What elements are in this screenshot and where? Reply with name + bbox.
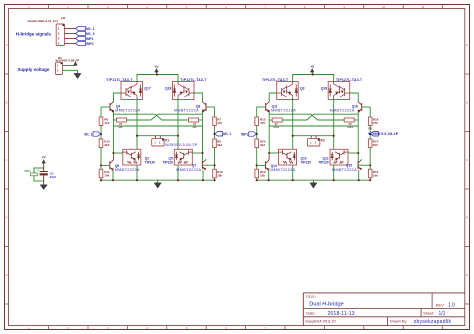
junction right TIP120 base: [201, 152, 203, 154]
svg-text:470: 470: [217, 121, 222, 125]
wire collector Q8: [194, 93, 203, 102]
connector P3 label: [56, 56, 80, 63]
net flag INP2 with connector label: [368, 127, 399, 137]
svg-text:Q18: Q18: [165, 87, 172, 91]
junction right output: [333, 135, 335, 137]
net flag M1_1: [84, 132, 102, 137]
net flag INP2 on H3 pin 4: [76, 41, 94, 46]
wire left rail lower: [256, 148, 258, 170]
junction left TIP120 base: [268, 152, 270, 154]
wire collector Q16: [350, 93, 359, 102]
wire right node column: [202, 112, 204, 162]
wire collector Q6: [112, 156, 114, 161]
transistor Q5 TIP120: [174, 149, 192, 165]
wire right node column: [357, 112, 359, 162]
wire right rail lower: [369, 148, 371, 170]
svg-text:MMBT2222A: MMBT2222A: [270, 168, 295, 172]
svg-text:3k3: 3k3: [217, 143, 222, 147]
wire cross upper to lower: [269, 114, 344, 120]
wire left rail upper: [100, 107, 102, 117]
label Q4: [115, 105, 140, 113]
voltage probe VDC: [24, 168, 44, 181]
svg-text:WJ500V-5.08-2P: WJ500V-5.08-2P: [165, 143, 197, 147]
svg-text:MMBT2222A: MMBT2222A: [271, 109, 296, 113]
label Q6: [115, 164, 140, 172]
transistor Q11 MMBT2222A: [266, 101, 270, 112]
wire left rail bottom: [256, 178, 258, 180]
wire left node column: [268, 112, 270, 156]
svg-text:Drawn By:: Drawn By:: [390, 320, 408, 324]
svg-text:B: B: [466, 101, 468, 105]
wire emitter Q12: [333, 165, 335, 180]
transistor Q4 MMBT2222A: [110, 101, 114, 112]
svg-text:MMBT2222A: MMBT2222A: [174, 109, 199, 113]
svg-text:2018-11-13: 2018-11-13: [328, 311, 355, 317]
svg-text:VDC: VDC: [24, 169, 31, 173]
svg-text:Header-Male-2.54_1x4: Header-Male-2.54_1x4: [28, 19, 59, 23]
svg-text:MMBT2222A: MMBT2222A: [115, 168, 140, 172]
wire emitter Q7: [202, 170, 204, 181]
connector P2 WJ500V-5.08-2P: [307, 136, 319, 146]
label Q7: [176, 164, 201, 172]
svg-text:E: E: [6, 273, 8, 277]
net flag M1_1 on H3 pin 1: [76, 26, 95, 31]
wire base Q14: [257, 164, 266, 166]
wire collector Q11: [269, 93, 277, 102]
svg-text:Q17: Q17: [144, 87, 151, 91]
wire left rail lower: [100, 148, 102, 170]
wire base drive line: [269, 125, 358, 127]
svg-text:P5: P5: [369, 127, 373, 131]
junction right base node: [369, 164, 371, 166]
wire base Q2: [114, 152, 123, 154]
label Q14: [270, 164, 295, 172]
wire cross lower to upper: [127, 114, 203, 120]
svg-text:P1: P1: [165, 138, 169, 142]
net flag INP1 on H3 pin 3: [76, 36, 94, 41]
transistor Q2 TIP120: [123, 149, 141, 165]
junction Q11 emitter: [268, 110, 270, 112]
transistor Q10 TIP120: [279, 149, 297, 165]
wire bottom rail: [257, 179, 371, 181]
wire right rail upper: [214, 107, 216, 117]
resistor R15 470: [255, 117, 266, 126]
wire output row: [293, 135, 334, 137]
svg-text:10: 10: [382, 5, 386, 9]
svg-text:P2: P2: [321, 138, 325, 142]
resistor R11 10k: [99, 169, 110, 178]
resistor R14 47: [344, 118, 358, 129]
svg-text:E: E: [466, 273, 468, 277]
net flag M1_2: [213, 132, 231, 137]
wire left rail upper: [256, 107, 258, 117]
junction right TIP120 base: [357, 152, 359, 154]
svg-text:3k3: 3k3: [104, 143, 109, 147]
svg-text:EasyEDA V5.8.20: EasyEDA V5.8.20: [306, 320, 336, 324]
wire base Q5: [192, 152, 202, 154]
wire emitter Q6: [112, 170, 114, 181]
junction left TIP120 base: [112, 152, 114, 154]
wire emitter Q14: [268, 170, 270, 181]
wire right rail lower: [214, 148, 216, 170]
label Q15: [332, 164, 357, 172]
wire emitter Q15: [358, 170, 360, 181]
junction at +V: [312, 73, 314, 75]
wire left output column: [136, 100, 138, 151]
svg-text:10k: 10k: [373, 173, 378, 177]
transistor Q18 TIP127L-TA3-T: [173, 82, 195, 100]
svg-text:11: 11: [421, 5, 424, 9]
resistor R6 470: [99, 117, 109, 126]
svg-text:Q19: Q19: [321, 87, 328, 91]
transistor Q15 MMBT2222A: [358, 159, 362, 170]
junction left output: [292, 135, 294, 137]
svg-text:M1_1: M1_1: [86, 27, 95, 31]
resistor R4 47: [114, 118, 127, 129]
resistor R18 470: [368, 117, 378, 126]
svg-text:TIP120: TIP120: [301, 160, 312, 164]
svg-text:MMBT2222A: MMBT2222A: [330, 109, 355, 113]
wire cross upper to lower: [114, 114, 189, 120]
label Q8: [174, 105, 201, 113]
resistor R7 470: [213, 117, 223, 126]
transistor Q16 MMBT2222A: [358, 101, 362, 112]
svg-text:MMBT2222A: MMBT2222A: [176, 168, 201, 172]
label P1: [165, 138, 198, 147]
wire base Q6: [101, 164, 110, 166]
wire emitter Q10: [292, 165, 294, 180]
svg-text:TITLE:: TITLE:: [306, 295, 316, 299]
wire base Q11: [257, 106, 266, 108]
wire right output column: [177, 100, 179, 151]
wire left node column: [113, 112, 115, 156]
svg-text:TIP120: TIP120: [163, 160, 174, 164]
svg-text:470: 470: [104, 121, 109, 125]
power flag +V of bridge 2: [310, 65, 315, 75]
wire base Q16: [362, 106, 371, 108]
transistor Q17 TIP127L-TA3-T: [121, 82, 143, 100]
svg-text:H3: H3: [61, 16, 65, 20]
junction Q4 emitter: [112, 110, 114, 112]
wire collector Q4: [114, 93, 122, 102]
wire right rail bottom: [214, 178, 216, 180]
wire collector Q14: [268, 156, 270, 161]
svg-text:D: D: [466, 216, 468, 220]
wire base Q8: [206, 106, 215, 108]
connector P3 WJ500V-5.08-2P: [56, 62, 63, 74]
svg-text:M1_2: M1_2: [86, 32, 95, 36]
transistor Q19 TIP127L-TA3-T: [328, 82, 350, 100]
wire right output column: [333, 100, 335, 151]
label Q11: [271, 105, 296, 113]
power flag +V at C1: [42, 156, 47, 167]
label Q12: [318, 157, 329, 165]
wire base Q15: [358, 164, 370, 166]
resistor R13 47: [269, 118, 282, 129]
resistor R16 10k: [368, 169, 378, 178]
capacitor C1 2m2: [37, 168, 56, 179]
wire right rail mid: [369, 126, 371, 140]
wire base Q12: [348, 152, 358, 154]
svg-text:H-bridge signals: H-bridge signals: [16, 31, 52, 36]
resistor R10 10k: [213, 169, 223, 178]
wire emitter Q2: [136, 165, 138, 180]
title block frame: [303, 293, 465, 326]
junction right output: [177, 135, 179, 137]
svg-text:10k: 10k: [217, 173, 222, 177]
svg-text:M1_1: M1_1: [84, 132, 92, 136]
svg-text:zbysekzapadlik: zbysekzapadlik: [414, 319, 452, 325]
transistor Q7 MMBT2222A: [202, 159, 206, 170]
svg-text:3k3: 3k3: [260, 143, 265, 147]
wire emitter Q5: [177, 165, 179, 180]
svg-text:470: 470: [373, 121, 378, 125]
wire right rail upper: [369, 107, 371, 117]
power flag +V at P3: [74, 62, 78, 66]
resistor R9 3k3: [213, 139, 223, 148]
junction left output: [136, 135, 138, 137]
transistor Q8 MMBT2222A: [202, 101, 206, 112]
svg-text:INP2: INP2: [86, 42, 94, 46]
junction right base node: [213, 164, 215, 166]
svg-text:+: +: [37, 168, 39, 172]
svg-text:A: A: [6, 43, 8, 47]
ground at P3: [74, 73, 81, 78]
svg-text:1.0: 1.0: [448, 303, 455, 309]
svg-text:Supply voltage: Supply voltage: [17, 67, 50, 72]
title block Sheet: [423, 311, 445, 317]
wire left rail mid: [256, 126, 258, 140]
wire bottom rail: [101, 179, 215, 181]
wire cross lower to upper: [282, 114, 358, 120]
junctions on bottom rail: [100, 179, 216, 181]
transistor Q3 TIP127L-TA3-T: [277, 82, 299, 100]
ground of bridge 1: [154, 180, 161, 188]
svg-text:A: A: [466, 43, 468, 47]
svg-text:INP1: INP1: [241, 132, 248, 136]
svg-text:M1_2: M1_2: [223, 132, 231, 136]
wire top rail: [137, 75, 178, 82]
svg-text:MMBT2222A: MMBT2222A: [115, 109, 140, 113]
svg-text:Q3: Q3: [300, 87, 305, 91]
svg-text:Sheet:: Sheet:: [423, 312, 434, 316]
connector H3 Header-Male-2.54_1x4: [56, 24, 75, 46]
label Q2: [145, 157, 156, 165]
svg-text:WJ500V-5.08-2P: WJ500V-5.08-2P: [368, 132, 399, 136]
svg-text:2m2: 2m2: [50, 175, 56, 179]
wire right rail bottom: [369, 178, 371, 180]
svg-text:D: D: [5, 216, 7, 220]
resistor R19 10k: [255, 169, 266, 178]
svg-text:Dual H-bridge: Dual H-bridge: [309, 302, 344, 308]
wire base Q7: [203, 164, 215, 166]
junction at +V: [156, 73, 158, 75]
title block Date: [306, 311, 354, 317]
label Q16: [330, 105, 358, 113]
wire left output column: [292, 100, 294, 151]
svg-text:MMBT2222A: MMBT2222A: [332, 168, 357, 172]
net flag INP1: [241, 132, 258, 137]
resistor R5 47: [189, 118, 203, 129]
wire left rail mid: [100, 126, 102, 140]
svg-text:1/1: 1/1: [439, 311, 446, 317]
wire output row: [137, 135, 178, 137]
svg-text:470: 470: [260, 121, 265, 125]
connector P1 WJ500V-5.08-2P: [152, 136, 164, 146]
label Q10: [301, 157, 312, 165]
wire P3 pin2 to ground: [63, 70, 78, 73]
wire base drive line: [114, 125, 203, 127]
net flag M1_2 on H3 pin 2: [76, 31, 95, 36]
transistor Q14 MMBT2222A: [266, 160, 270, 171]
svg-text:C: C: [5, 158, 7, 162]
ground below C1: [40, 185, 47, 190]
junction Q16 emitter: [358, 110, 360, 112]
svg-text:TIP120: TIP120: [318, 160, 329, 164]
connector H3 label: [28, 16, 66, 23]
wire +V to C1: [43, 167, 45, 172]
svg-text:3k3: 3k3: [373, 143, 378, 147]
svg-text:10k: 10k: [260, 173, 265, 177]
resistor R12 3k3: [99, 139, 110, 148]
svg-text:REV:: REV:: [436, 303, 445, 307]
resistor R17 3k3: [368, 139, 378, 148]
wire base Q4: [101, 106, 110, 108]
svg-text:Date:: Date:: [306, 312, 315, 316]
junctions on bottom rail: [256, 179, 372, 181]
wire base Q10: [269, 152, 278, 154]
wire top rail: [293, 75, 334, 82]
wire right rail mid: [214, 126, 216, 140]
wire left rail bottom: [100, 178, 102, 180]
junction Q8 emitter: [202, 110, 204, 112]
power flag +V of bridge 1: [155, 65, 160, 75]
resistor R20 3k3: [255, 139, 266, 148]
border zone tick marks left and right: [5, 74, 470, 304]
svg-text:INP1: INP1: [86, 37, 94, 41]
svg-text:B: B: [6, 101, 8, 105]
svg-text:10k: 10k: [104, 173, 109, 177]
transistor Q12 TIP120: [330, 149, 348, 165]
svg-text:C: C: [466, 158, 468, 162]
wire P3 pin1 to +V: [63, 65, 76, 67]
title block REV: [436, 303, 455, 309]
junction left base node: [100, 164, 102, 166]
junction left base node: [256, 164, 258, 166]
transistor Q6 MMBT2222A: [110, 160, 114, 171]
wire C1 to ground: [43, 175, 45, 184]
label Q5: [163, 157, 174, 165]
ground of bridge 2: [310, 180, 317, 188]
svg-text:TIP120: TIP120: [145, 160, 156, 164]
title block Drawn By: [390, 319, 452, 325]
